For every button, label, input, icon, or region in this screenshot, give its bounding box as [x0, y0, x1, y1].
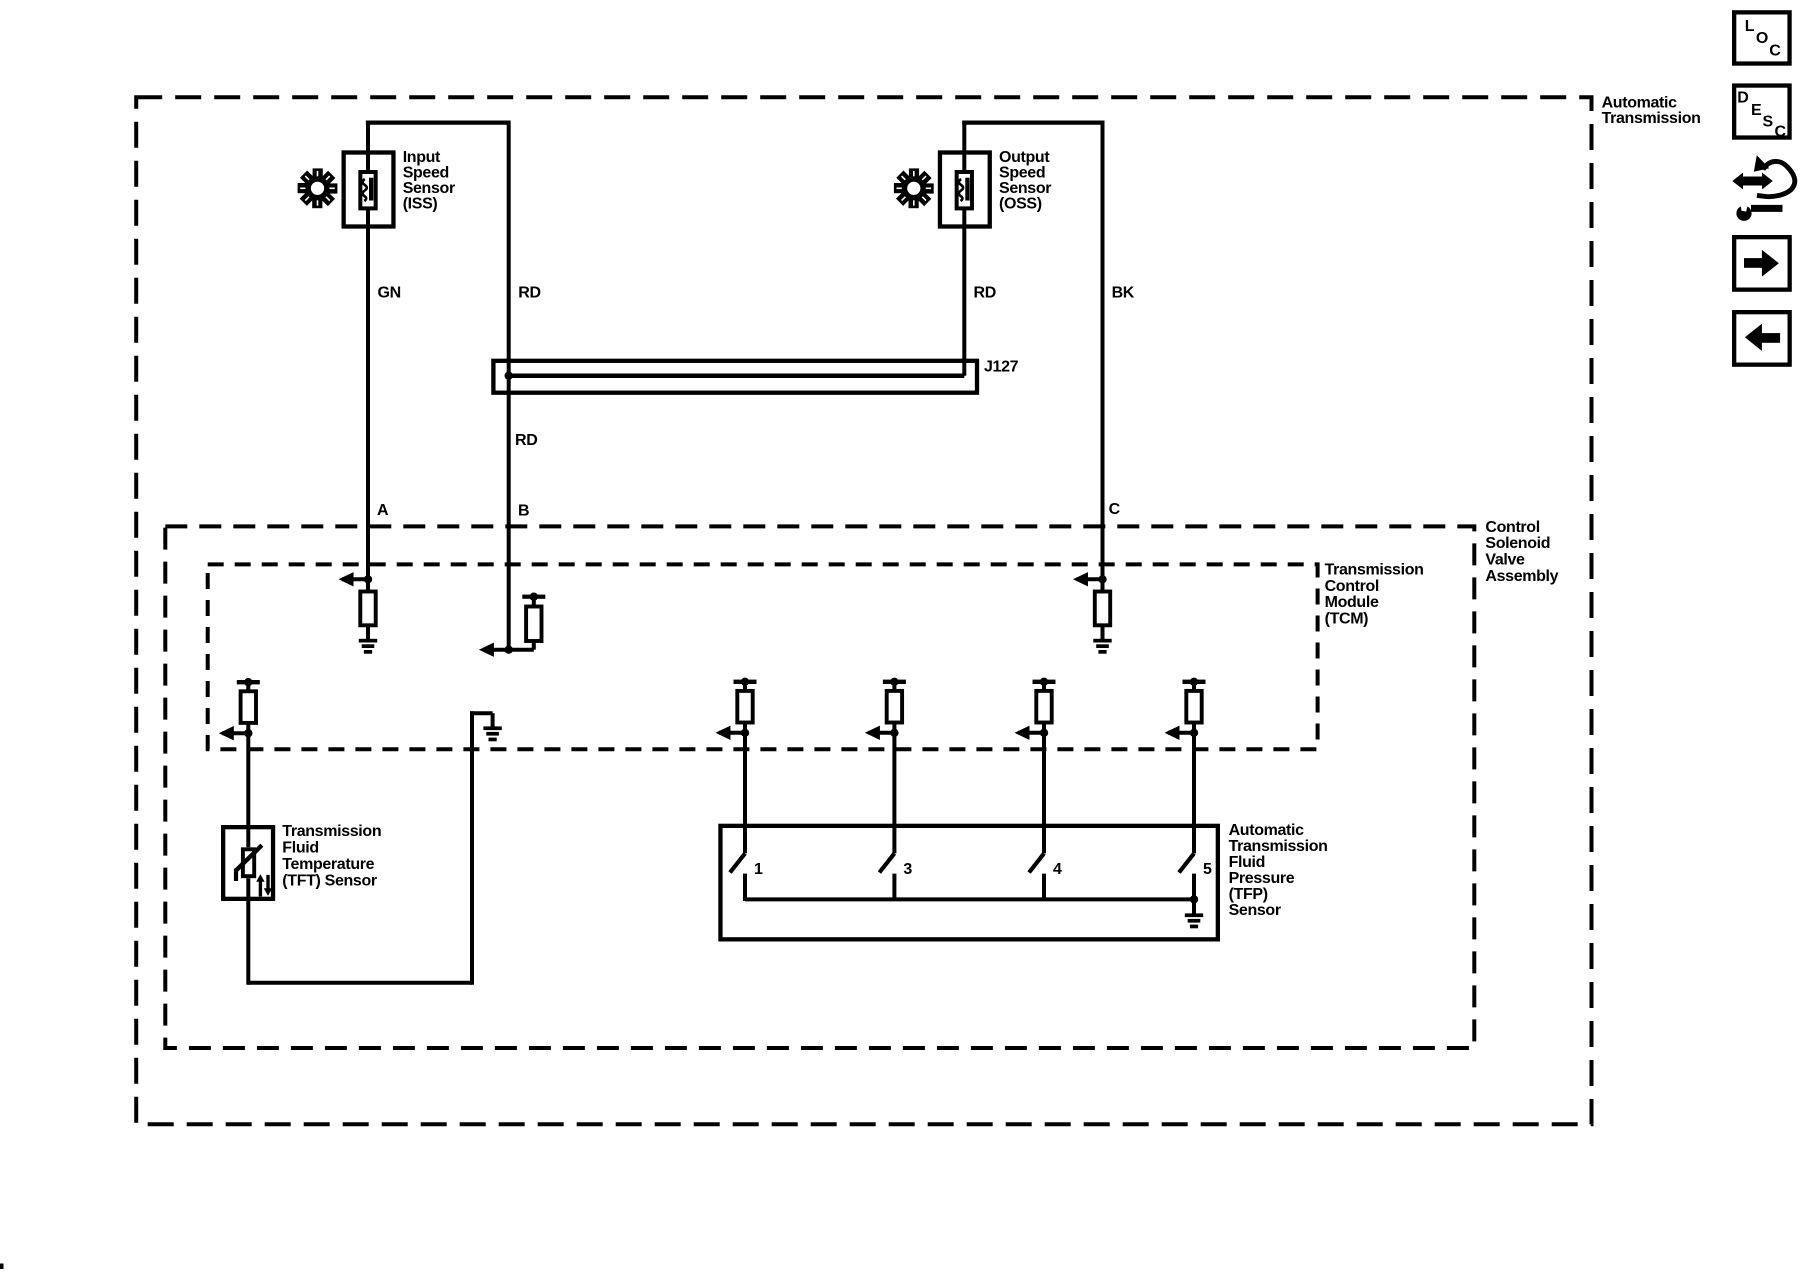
svg-text:L: L [1745, 18, 1755, 35]
svg-text:C: C [1109, 501, 1121, 518]
svg-text:Sensor: Sensor [1229, 902, 1281, 919]
svg-text:Control: Control [1485, 519, 1539, 536]
svg-text:1: 1 [754, 861, 763, 878]
svg-text:C: C [1769, 43, 1781, 60]
svg-text:Input: Input [403, 149, 441, 166]
svg-text:C: C [1775, 124, 1787, 141]
svg-text:A: A [377, 502, 389, 519]
svg-text:S: S [1763, 113, 1774, 130]
svg-text:(TFT) Sensor: (TFT) Sensor [282, 873, 377, 890]
svg-text:Module: Module [1325, 594, 1379, 611]
svg-text:B: B [518, 503, 529, 520]
svg-text:Output: Output [999, 149, 1050, 166]
svg-text:(TFP): (TFP) [1229, 886, 1268, 903]
svg-text:Sensor: Sensor [403, 180, 455, 197]
svg-text:Transmission: Transmission [1602, 110, 1701, 127]
svg-text:RD: RD [974, 285, 996, 302]
svg-text:Speed: Speed [999, 164, 1045, 181]
svg-text:Transmission: Transmission [1325, 562, 1424, 579]
svg-text:Temperature: Temperature [282, 856, 374, 873]
svg-text:3: 3 [903, 861, 912, 878]
svg-text:BK: BK [1112, 285, 1135, 302]
svg-text:Transmission: Transmission [1229, 838, 1328, 855]
svg-text:J127: J127 [984, 358, 1019, 375]
svg-text:E: E [1751, 102, 1762, 119]
svg-text:GN: GN [378, 285, 401, 302]
svg-text:Valve: Valve [1485, 552, 1525, 569]
svg-text:Fluid: Fluid [1229, 854, 1265, 871]
svg-text:O: O [1756, 30, 1768, 47]
svg-text:Assembly: Assembly [1485, 568, 1558, 585]
svg-text:4: 4 [1053, 861, 1062, 878]
svg-text:Solenoid: Solenoid [1485, 535, 1550, 552]
svg-text:(ISS): (ISS) [403, 195, 438, 212]
svg-text:D: D [1737, 90, 1748, 107]
svg-text:Control: Control [1325, 578, 1379, 595]
svg-text:5: 5 [1203, 861, 1212, 878]
svg-text:RD: RD [518, 285, 540, 302]
svg-text:Automatic: Automatic [1229, 822, 1305, 839]
svg-text:Speed: Speed [403, 164, 449, 181]
svg-text:(TCM): (TCM) [1325, 611, 1369, 628]
svg-text:Pressure: Pressure [1229, 870, 1295, 887]
svg-text:Automatic: Automatic [1602, 95, 1678, 112]
svg-text:Transmission: Transmission [282, 823, 381, 840]
svg-text:(OSS): (OSS) [999, 195, 1042, 212]
svg-text:Fluid: Fluid [282, 840, 318, 857]
svg-text:RD: RD [515, 432, 537, 449]
svg-text:Sensor: Sensor [999, 180, 1051, 197]
